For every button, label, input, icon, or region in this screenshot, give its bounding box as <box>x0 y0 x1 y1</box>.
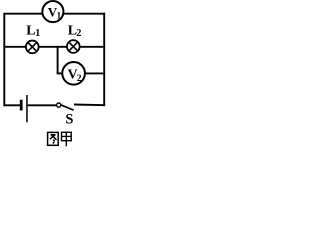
wire right vertical <box>103 13 105 106</box>
voltmeter V1 <box>42 1 63 22</box>
wire top-left segment <box>4 13 42 15</box>
voltmeter V2 <box>62 62 85 85</box>
wire lamp-row right <box>80 46 106 48</box>
svg-text:L: L <box>26 24 35 39</box>
svg-text:2: 2 <box>76 28 81 39</box>
switch S blade <box>61 105 74 110</box>
wire lamp-row left <box>4 46 26 48</box>
battery: short thick negative plate <box>20 100 23 111</box>
wire V2 branch vertical from node between L1 and L2 <box>57 46 59 74</box>
lamp L2 <box>67 40 80 53</box>
caption character 甲 (hand-drawn strokes) <box>62 132 72 146</box>
wire V2 branch horizontal to V2 <box>57 72 63 74</box>
svg-text:2: 2 <box>77 74 82 84</box>
wire top-right segment <box>63 13 105 15</box>
battery: long thin positive plate <box>26 95 28 122</box>
svg-text:S: S <box>65 111 73 127</box>
label L2 <box>68 23 82 39</box>
wire lamp-row middle <box>39 46 68 48</box>
caption character 图 (hand-drawn strokes) <box>48 132 59 145</box>
label L1 <box>26 24 40 39</box>
wire left vertical <box>3 13 5 106</box>
wire battery to switch <box>28 104 57 106</box>
lamp L1 <box>26 41 39 54</box>
svg-text:1: 1 <box>35 28 40 39</box>
svg-text:1: 1 <box>57 10 62 20</box>
wire bottom-left <box>4 104 20 106</box>
switch S pivot <box>57 103 61 107</box>
wire switch contact to bottom-right corner <box>74 104 105 107</box>
wire V2 right <box>85 72 105 74</box>
